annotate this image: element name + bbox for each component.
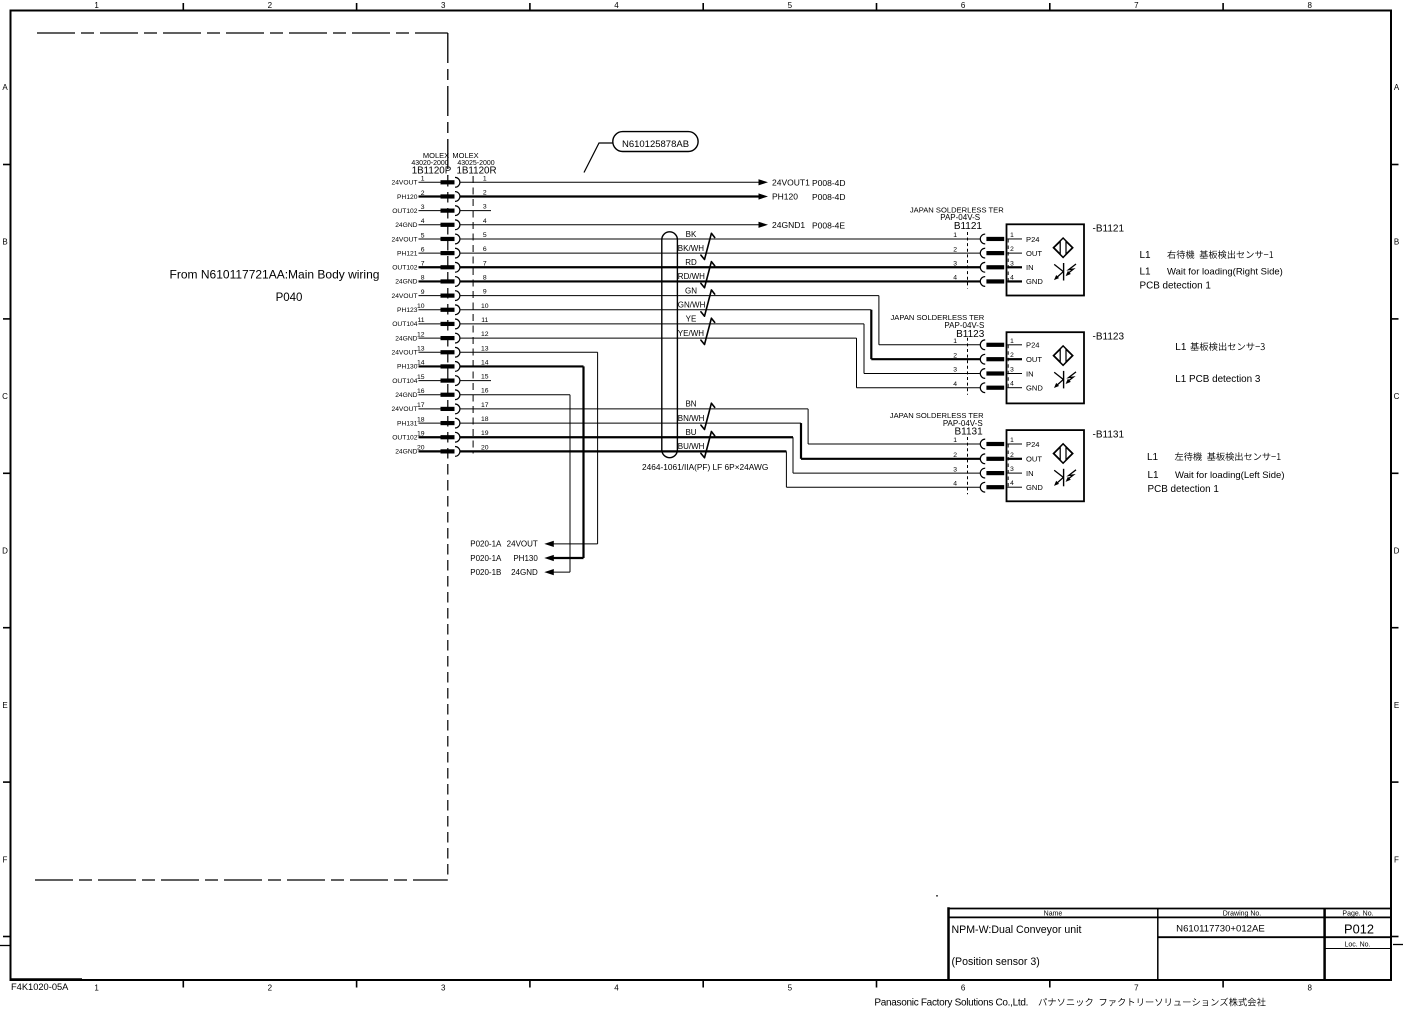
svg-text:24VOUT: 24VOUT: [391, 406, 417, 413]
svg-text:RD/WH: RD/WH: [678, 272, 705, 281]
svg-text:1: 1: [1010, 338, 1014, 345]
svg-text:B1123: B1123: [956, 329, 985, 340]
svg-text:1: 1: [953, 437, 957, 444]
sensor B1131 mating dashed line: [967, 437, 969, 494]
svg-text:4: 4: [614, 1, 619, 10]
svg-text:4: 4: [421, 218, 425, 225]
cable bundle outline: [662, 232, 678, 458]
sensor connector header JAPAN SOLDERLESS TER PAP-04V-S B1123: [890, 313, 984, 340]
svg-text:Loc. No.: Loc. No.: [1344, 942, 1370, 949]
svg-text:5: 5: [483, 232, 487, 239]
svg-text:NPM-W:Dual Conveyor unit: NPM-W:Dual Conveyor unit: [952, 924, 1082, 936]
svg-text:P020-1A: P020-1A: [470, 540, 502, 549]
pin 11 (OUT104) of connector 1B1120P/1B1120R: [392, 317, 488, 329]
svg-text:B: B: [2, 238, 7, 247]
svg-text:5: 5: [788, 1, 793, 10]
connector header MOLEX 43020-2000 1B1120P: [411, 151, 451, 176]
sensor B1121 inner dashed line: [1007, 239, 1009, 281]
pin 17 (24VOUT) of connector 1B1120P/1B1120R: [391, 402, 488, 414]
pin 16 (24GND) of connector 1B1120P/1B1120R: [395, 388, 489, 400]
sensor B1121 body box: [1007, 224, 1085, 295]
svg-text:3: 3: [953, 466, 957, 473]
svg-text:3: 3: [483, 204, 487, 211]
main body wiring boundary right vertical chain line (upper): [447, 33, 449, 176]
svg-text:24GND: 24GND: [395, 335, 417, 342]
sensor B1131 body box: [1007, 430, 1085, 501]
svg-text:24VOUT: 24VOUT: [507, 540, 538, 549]
svg-text:D: D: [2, 547, 8, 556]
svg-text:B1121: B1121: [954, 221, 983, 232]
svg-text:11: 11: [481, 317, 488, 324]
svg-text:24VOUT: 24VOUT: [391, 236, 417, 243]
wire pin14 PH130 to P020-1A PH130: [460, 366, 584, 561]
svg-text:24GND1: 24GND1: [772, 220, 805, 230]
wire pin4 24GND to 24GND1 P008-4E: [460, 222, 768, 228]
svg-text:PCB detection 1: PCB detection 1: [1148, 484, 1220, 495]
annotation L1 right-side PCB sensor (Japanese): [1140, 250, 1274, 261]
svg-text:2: 2: [953, 452, 957, 459]
wire pin17 BN to sensor B1131 pin 1: [460, 409, 981, 444]
pin 4 (24GND) of connector 1B1120P/1B1120R: [395, 218, 487, 230]
wire pin5 BK to sensor B1121 pin 1: [460, 238, 981, 240]
svg-text:YE/WH: YE/WH: [678, 329, 704, 338]
svg-text:6: 6: [421, 246, 425, 253]
sensor B1131 light receiver symbol: [1054, 469, 1076, 487]
svg-text:Page. No.: Page. No.: [1342, 911, 1373, 918]
svg-text:2: 2: [953, 246, 957, 253]
wire pin8 RD/WH to sensor B1121 pin 4: [460, 280, 981, 282]
svg-text:E: E: [1394, 701, 1399, 710]
svg-text:IN: IN: [1026, 263, 1034, 272]
svg-text:PH121: PH121: [397, 250, 418, 257]
pin 2 (OUT) of sensor connector B1131: [953, 452, 1042, 464]
svg-text:From N610117721AA:Main Body w: From N610117721AA:Main Body wiring: [170, 268, 380, 282]
pin 14 (PH130) of connector 1B1120P/1B1120R: [397, 359, 489, 371]
pin 4 (GND) of sensor connector B1121: [953, 274, 1043, 286]
annotation L1 Wait for loading(Left Side): [1148, 470, 1285, 481]
svg-text:16: 16: [417, 388, 425, 395]
svg-text:6: 6: [961, 1, 966, 10]
twisted pair mark BK/BK/WH: [701, 233, 715, 259]
svg-text:7: 7: [1134, 1, 1139, 10]
svg-text:Drawing No.: Drawing No.: [1223, 911, 1262, 918]
pin 2 (OUT) of sensor connector B1123: [953, 352, 1042, 364]
svg-text:L1: L1: [1175, 342, 1187, 353]
svg-text:2: 2: [268, 1, 273, 10]
svg-text:8: 8: [1307, 984, 1312, 993]
svg-text:-B1131: -B1131: [1093, 430, 1125, 441]
pin 1 (P24) of sensor connector B1121: [953, 232, 1039, 244]
svg-text:IN: IN: [1026, 469, 1034, 478]
svg-text:A: A: [2, 83, 8, 92]
svg-text:OUT104: OUT104: [392, 321, 418, 328]
svg-text:2: 2: [1010, 452, 1014, 459]
svg-text:(Position sensor 3): (Position sensor 3): [952, 956, 1040, 968]
main body wiring boundary bottom chain line: [35, 879, 448, 881]
svg-text:L1: L1: [1148, 470, 1160, 481]
svg-text:Name: Name: [1044, 911, 1063, 918]
svg-text:3: 3: [441, 1, 446, 10]
twisted pair mark RD/RD/WH: [701, 262, 715, 288]
svg-text:GN/WH: GN/WH: [678, 301, 706, 310]
annotation L1 PCB sensor 3 (Japanese): [1175, 342, 1265, 353]
svg-text:BN: BN: [685, 400, 696, 409]
svg-text:MOLEX: MOLEX: [423, 151, 449, 160]
sensor connector header JAPAN SOLDERLESS TER PAP-04V-S B1121: [910, 205, 1004, 232]
callout leader line: [584, 143, 613, 173]
svg-text:3: 3: [441, 984, 446, 993]
svg-text:3: 3: [953, 260, 957, 267]
svg-text:1: 1: [953, 232, 957, 239]
svg-text:6: 6: [483, 246, 487, 253]
svg-text:YE: YE: [686, 315, 697, 324]
sensor B1131 inner dashed line: [1007, 444, 1009, 487]
pin 5 (24VOUT) of connector 1B1120P/1B1120R: [391, 232, 486, 244]
svg-text:1: 1: [421, 176, 425, 183]
svg-text:PH120: PH120: [772, 192, 798, 202]
pin 1 (P24) of sensor connector B1123: [953, 338, 1039, 350]
svg-text:GND: GND: [1026, 384, 1043, 393]
svg-text:PH131: PH131: [397, 420, 418, 427]
svg-text:L1: L1: [1140, 250, 1152, 261]
svg-text:4: 4: [1010, 381, 1014, 388]
svg-text:F4K1020-05A: F4K1020-05A: [11, 982, 69, 992]
svg-text:F: F: [3, 856, 8, 865]
svg-text:5: 5: [788, 984, 793, 993]
svg-text:BU: BU: [685, 428, 696, 437]
svg-text:P040: P040: [276, 292, 303, 304]
svg-text:24VOUT: 24VOUT: [391, 350, 417, 357]
svg-text:9: 9: [421, 289, 425, 296]
svg-text:D: D: [1394, 547, 1400, 556]
wire pin2 PH120 to P008-4D: [460, 193, 768, 199]
twisted pair mark GN/GN/WH: [701, 290, 715, 316]
svg-text:P008-4E: P008-4E: [812, 220, 845, 230]
svg-text:17: 17: [417, 402, 425, 409]
svg-text:Wait for loading(Left Side): Wait for loading(Left Side): [1175, 470, 1284, 481]
svg-text:12: 12: [417, 331, 425, 338]
svg-text:11: 11: [417, 317, 424, 324]
svg-text:OUT: OUT: [1026, 249, 1042, 258]
wire pin11 YE to sensor B1123 pin 3: [460, 324, 981, 374]
pin 1 (24VOUT) of connector 1B1120P/1B1120R: [391, 175, 486, 187]
svg-text:Wait for loading(Right Side): Wait for loading(Right Side): [1167, 267, 1283, 278]
svg-text:RD: RD: [685, 258, 697, 267]
svg-text:24VOUT: 24VOUT: [391, 180, 417, 187]
pin 3 (IN) of sensor connector B1131: [953, 466, 1033, 478]
svg-text:F: F: [1394, 856, 1399, 865]
sensor B1121 mating dashed line: [967, 232, 969, 288]
pin 2 (OUT) of sensor connector B1121: [953, 246, 1042, 258]
pin 19 (OUT102) of connector 1B1120P/1B1120R: [392, 430, 489, 442]
svg-text:8: 8: [1307, 1, 1312, 10]
stray mark: [936, 895, 938, 897]
wire pin10 GN/WH to sensor B1123 pin 2: [460, 310, 981, 359]
pin 2 (PH120) of connector 1B1120P/1B1120R: [397, 189, 487, 201]
connector 1B1120R mating dashed line: [472, 176, 474, 454]
twisted pair mark BN/BN/WH: [701, 403, 715, 429]
svg-text:IN: IN: [1026, 369, 1034, 378]
svg-text:10: 10: [417, 303, 425, 310]
wire pin12 YE/WH to sensor B1123 pin 4: [460, 338, 981, 388]
wire pin20 BU/WH to sensor B1131 pin 4: [460, 451, 981, 487]
svg-text:18: 18: [417, 416, 425, 423]
svg-text:3: 3: [1010, 466, 1014, 473]
label P020-1A PH130: [470, 554, 538, 563]
pin 4 (GND) of sensor connector B1131: [953, 480, 1043, 492]
svg-text:6: 6: [961, 984, 966, 993]
svg-text:2464-1061/IIA(PF) LF 6P×24AWG: 2464-1061/IIA(PF) LF 6P×24AWG: [642, 462, 768, 472]
svg-text:C: C: [2, 392, 8, 401]
svg-text:P24: P24: [1026, 341, 1040, 350]
svg-text:4: 4: [1010, 274, 1014, 281]
sensor B1131 photoelectric emitter symbol: [1053, 444, 1072, 463]
svg-text:3: 3: [421, 204, 425, 211]
svg-text:3: 3: [1010, 367, 1014, 374]
svg-text:12: 12: [481, 331, 489, 338]
wire pin16 24GND to P020-1B 24GND: [460, 395, 570, 575]
sensor B1123 body box: [1007, 332, 1085, 403]
svg-text:24GND: 24GND: [395, 279, 417, 286]
svg-text:2: 2: [268, 984, 273, 993]
svg-text:L1: L1: [1140, 267, 1152, 278]
svg-text:3: 3: [953, 367, 957, 374]
svg-text:4: 4: [1010, 480, 1014, 487]
label P020-1B 24GND: [470, 568, 538, 577]
svg-text:18: 18: [481, 416, 489, 423]
svg-text:2: 2: [1010, 352, 1014, 359]
svg-text:PCB detection 1: PCB detection 1: [1140, 281, 1212, 292]
svg-text:GND: GND: [1026, 483, 1043, 492]
pin 3 (IN) of sensor connector B1121: [953, 260, 1033, 272]
pin 3 (IN) of sensor connector B1123: [953, 367, 1033, 379]
sensor B1121 photoelectric emitter symbol: [1053, 238, 1072, 257]
svg-text:OUT102: OUT102: [392, 435, 418, 442]
sensor B1123 photoelectric emitter symbol: [1053, 346, 1072, 365]
label 24GND1 P008-4E: [772, 220, 845, 230]
svg-text:13: 13: [481, 345, 489, 352]
pin 7 (OUT102) of connector 1B1120P/1B1120R: [392, 260, 487, 272]
wire pin3 OUT102 stub: [460, 210, 491, 212]
svg-text:24GND: 24GND: [395, 392, 417, 399]
svg-text:GND: GND: [1026, 277, 1043, 286]
svg-text:1: 1: [94, 984, 99, 993]
annotation L1 left-side PCB sensor (Japanese): [1147, 452, 1281, 463]
svg-text:7: 7: [1134, 984, 1139, 993]
svg-text:1: 1: [483, 175, 487, 182]
sensor connector header JAPAN SOLDERLESS TER PAP-04V-S B1131: [890, 411, 984, 438]
svg-text:16: 16: [481, 388, 489, 395]
svg-text:OUT104: OUT104: [392, 378, 418, 385]
svg-text:4: 4: [953, 480, 957, 487]
wire pin15 OUT104 stub: [460, 380, 491, 382]
wire pin19 BU to sensor B1131 pin 3: [460, 437, 981, 473]
svg-text:B: B: [1394, 238, 1399, 247]
svg-text:P008-4D: P008-4D: [812, 192, 846, 202]
svg-text:PH120: PH120: [397, 194, 418, 201]
svg-text:OUT: OUT: [1026, 455, 1042, 464]
wire pin7 RD to sensor B1121 pin 3: [460, 266, 981, 268]
svg-text:E: E: [2, 701, 7, 710]
svg-text:GN: GN: [685, 286, 697, 295]
svg-text:B1131: B1131: [955, 427, 984, 438]
svg-text:17: 17: [481, 402, 489, 409]
main body wiring boundary top chain line: [37, 32, 448, 34]
svg-text:PH130: PH130: [513, 554, 538, 563]
svg-text:1: 1: [94, 1, 99, 10]
svg-text:1: 1: [1010, 232, 1014, 239]
svg-text:OUT102: OUT102: [392, 208, 418, 215]
svg-text:MOLEX: MOLEX: [452, 151, 478, 160]
title block grid: [949, 907, 1392, 980]
pin 1 (P24) of sensor connector B1131: [953, 437, 1039, 449]
svg-text:-B1123: -B1123: [1093, 332, 1125, 343]
svg-text:P020-1B: P020-1B: [470, 568, 501, 577]
pin 10 (PH123) of connector 1B1120P/1B1120R: [397, 303, 489, 315]
svg-text:N610117730+012AE: N610117730+012AE: [1176, 924, 1265, 935]
svg-text:1B1120P: 1B1120P: [412, 165, 452, 176]
wire pin18 BN/WH to sensor B1131 pin 2: [460, 423, 981, 459]
svg-text:P008-4D: P008-4D: [812, 178, 846, 188]
svg-text:A: A: [1394, 83, 1400, 92]
twisted pair mark YE/YE/WH: [701, 318, 715, 344]
svg-text:BK/WH: BK/WH: [678, 244, 704, 253]
sensor B1123 inner dashed line: [1007, 345, 1009, 388]
callout balloon N610125878AB: [613, 132, 698, 152]
pin 6 (PH121) of connector 1B1120P/1B1120R: [397, 246, 487, 258]
svg-text:C: C: [1394, 392, 1400, 401]
pin 3 (OUT102) of connector 1B1120P/1B1120R: [392, 204, 487, 216]
wire pin9 GN to sensor B1123 pin 1: [460, 296, 981, 345]
svg-text:15: 15: [417, 374, 425, 381]
annotation L1 Wait for loading(Right Side): [1140, 267, 1283, 278]
svg-text:24GND: 24GND: [395, 449, 417, 456]
svg-text:OUT102: OUT102: [392, 265, 418, 272]
svg-text:24VOUT1: 24VOUT1: [772, 178, 810, 188]
svg-text:3: 3: [1010, 260, 1014, 267]
label P020-1A 24VOUT: [470, 540, 538, 549]
svg-text:1: 1: [953, 338, 957, 345]
sensor B1123 light receiver symbol: [1054, 371, 1076, 389]
svg-text:L1 PCB detection 3: L1 PCB detection 3: [1175, 374, 1261, 385]
svg-text:OUT: OUT: [1026, 355, 1042, 364]
svg-text:5: 5: [421, 232, 425, 239]
svg-text:P24: P24: [1026, 440, 1040, 449]
svg-text:P012: P012: [1344, 922, 1374, 937]
label PH120 P008-4D: [772, 192, 846, 202]
pin 12 (24GND) of connector 1B1120P/1B1120R: [395, 331, 489, 343]
svg-text:1: 1: [1010, 437, 1014, 444]
main body wiring boundary vertical through connector 1B1120P: [447, 176, 449, 880]
svg-text:24VOUT: 24VOUT: [391, 293, 417, 300]
pin 20 (24GND) of connector 1B1120P/1B1120R: [395, 444, 489, 456]
wire pin1 24VOUT to 24VOUT1 P008-4D: [460, 179, 768, 185]
wire pin6 BK/WH to sensor B1121 pin 2: [460, 252, 981, 254]
svg-text:4: 4: [483, 218, 487, 225]
pin 4 (GND) of sensor connector B1123: [953, 381, 1043, 393]
label 24VOUT1 P008-4D: [772, 178, 846, 188]
svg-text:BK: BK: [686, 230, 697, 239]
sensor B1123 mating dashed line: [967, 338, 969, 395]
pin 18 (PH131) of connector 1B1120P/1B1120R: [397, 416, 489, 428]
pin 8 (24GND) of connector 1B1120P/1B1120R: [395, 274, 487, 286]
svg-text:2: 2: [1010, 246, 1014, 253]
pin 9 (24VOUT) of connector 1B1120P/1B1120R: [391, 289, 486, 301]
svg-text:-B1121: -B1121: [1093, 224, 1125, 235]
svg-text:24GND: 24GND: [395, 222, 417, 229]
svg-text:9: 9: [483, 289, 487, 296]
twisted pair mark BU/BU/WH: [701, 432, 715, 458]
wire pin13 24VOUT to P020-1A 24VOUT: [460, 352, 598, 547]
sensor B1121 light receiver symbol: [1054, 263, 1076, 281]
connector header MOLEX 43025-2000 1B1120R: [452, 151, 496, 176]
svg-text:13: 13: [417, 346, 425, 353]
svg-text:BU/WH: BU/WH: [678, 442, 705, 451]
svg-text:PH123: PH123: [397, 307, 418, 314]
svg-text:P020-1A: P020-1A: [470, 554, 502, 563]
svg-text:N610125878AB: N610125878AB: [622, 139, 689, 150]
svg-text:24GND: 24GND: [511, 568, 538, 577]
svg-text:Panasonic Factory Solutions Co: Panasonic Factory Solutions Co.,Ltd.: [874, 998, 1028, 1009]
svg-text:PH130: PH130: [397, 364, 418, 371]
svg-text:P24: P24: [1026, 235, 1040, 244]
svg-text:1B1120R: 1B1120R: [456, 165, 496, 176]
svg-text:L1: L1: [1147, 452, 1159, 463]
svg-text:4: 4: [953, 381, 957, 388]
company name footer: [874, 998, 1265, 1009]
svg-text:4: 4: [953, 275, 957, 282]
svg-text:BN/WH: BN/WH: [678, 414, 705, 423]
svg-text:4: 4: [614, 984, 619, 993]
svg-text:10: 10: [481, 303, 489, 310]
pin 13 (24VOUT) of connector 1B1120P/1B1120R: [391, 345, 488, 357]
svg-text:2: 2: [953, 352, 957, 359]
svg-text:15: 15: [481, 374, 489, 381]
pin 15 (OUT104) of connector 1B1120P/1B1120R: [392, 374, 489, 386]
